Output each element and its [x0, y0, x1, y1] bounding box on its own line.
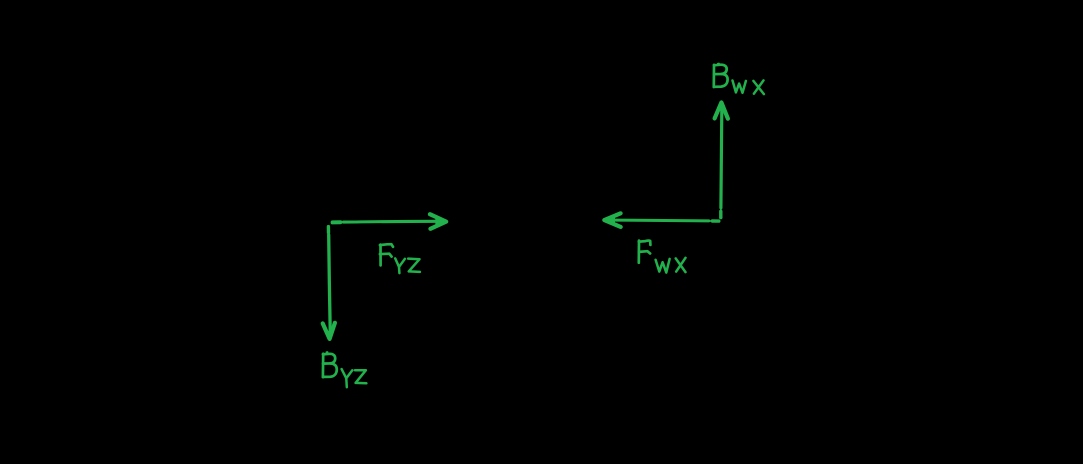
wire: F_WX arrow shaft (horizontal, pointing left) — [612, 220, 719, 221]
wire: B_YZ arrow shaft (vertical, pointing down) — [328, 227, 330, 330]
label F_YZ — [380, 244, 393, 265]
label B_WX — [714, 64, 728, 87]
label B_YZ — [323, 352, 337, 377]
arrowhead of F_YZ (right) — [430, 214, 447, 229]
label F_WX — [639, 241, 651, 263]
arrowhead of B_WX (up) — [715, 101, 728, 118]
arrowhead of F_WX (left) — [603, 213, 621, 227]
arrowhead of B_YZ (down) — [323, 323, 335, 340]
wire: B_WX arrow shaft (vertical, pointing up) — [721, 110, 722, 218]
wire: F_YZ arrow shaft (horizontal, pointing right) — [333, 221, 441, 222]
